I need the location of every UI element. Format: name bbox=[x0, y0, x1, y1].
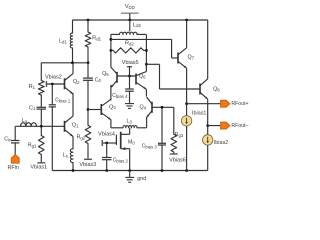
svg-text:Q4: Q4 bbox=[140, 104, 147, 110]
svg-text:Vbias4: Vbias4 bbox=[98, 132, 115, 138]
svg-text:Q5: Q5 bbox=[102, 71, 109, 77]
svg-text:Vbias5: Vbias5 bbox=[122, 60, 139, 66]
svg-text:Q8: Q8 bbox=[213, 87, 220, 93]
svg-text:RFout+: RFout+ bbox=[231, 101, 248, 107]
svg-text:Q6: Q6 bbox=[139, 73, 146, 79]
svg-text:Cin: Cin bbox=[4, 137, 12, 143]
svg-text:M0: M0 bbox=[128, 139, 135, 145]
svg-text:Ld1: Ld1 bbox=[59, 38, 67, 44]
svg-text:Q1: Q1 bbox=[72, 123, 79, 129]
svg-text:Cbias 2: Cbias 2 bbox=[113, 157, 129, 163]
svg-text:RFout–: RFout– bbox=[231, 123, 248, 129]
svg-text:Lg: Lg bbox=[22, 118, 28, 124]
svg-text:Rd2: Rd2 bbox=[125, 41, 134, 47]
svg-text:Ibias2: Ibias2 bbox=[214, 140, 228, 146]
svg-text:Ls: Ls bbox=[63, 152, 68, 158]
svg-text:Vbias3: Vbias3 bbox=[79, 162, 96, 168]
svg-text:Rg1: Rg1 bbox=[28, 142, 37, 148]
svg-text:Q3: Q3 bbox=[109, 104, 116, 110]
svg-text:Rg3: Rg3 bbox=[175, 132, 184, 138]
svg-text:Rg2: Rg2 bbox=[77, 135, 86, 141]
svg-text:L3: L3 bbox=[127, 119, 133, 125]
svg-text:Q2: Q2 bbox=[73, 79, 80, 85]
svg-text:C1: C1 bbox=[29, 105, 36, 111]
svg-text:Rd1: Rd1 bbox=[92, 36, 101, 42]
svg-text:Ld2: Ld2 bbox=[133, 22, 142, 28]
svg-text:R1: R1 bbox=[29, 84, 36, 90]
svg-text:C0: C0 bbox=[95, 77, 102, 83]
svg-text:Cbias 1: Cbias 1 bbox=[55, 98, 71, 104]
svg-text:gnd: gnd bbox=[137, 176, 146, 182]
svg-text:VDD: VDD bbox=[125, 4, 135, 10]
svg-text:Ibias1: Ibias1 bbox=[192, 110, 206, 116]
svg-text:Q7: Q7 bbox=[188, 54, 195, 60]
svg-text:RFin: RFin bbox=[8, 165, 19, 171]
svg-text:Cbias 4: Cbias 4 bbox=[112, 93, 128, 99]
svg-text:Cbias 3: Cbias 3 bbox=[142, 143, 158, 149]
svg-text:Vbias1: Vbias1 bbox=[30, 165, 47, 171]
svg-text:Vbias6: Vbias6 bbox=[169, 157, 186, 163]
svg-text:Vbias2: Vbias2 bbox=[45, 74, 62, 80]
